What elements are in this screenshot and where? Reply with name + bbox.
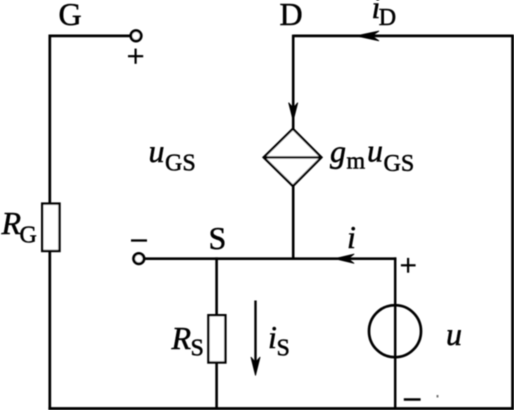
speck artifact [437,395,439,398]
voltage source u (circle) [369,305,421,357]
wire RS bottom stem [215,363,218,410]
svg-text:D: D [280,0,303,32]
svg-text:D: D [379,5,396,31]
svg-text:u: u [149,133,165,169]
terminal G (open circle) [131,31,141,41]
svg-text:R: R [1,205,22,241]
polarity - of uGS [131,239,147,241]
svg-text:u: u [446,316,462,352]
wire left vertical upper [48,35,51,204]
svg-text:S: S [191,336,204,362]
svg-text:i: i [347,219,356,255]
wire RS top stem [215,257,218,316]
terminal S (open circle) [134,253,144,263]
svg-text:G: G [59,0,82,32]
wire from D down to dependent source [292,35,295,130]
svg-text:m: m [347,149,366,175]
svg-text:GS: GS [384,151,415,177]
wire S horizontal [145,257,397,260]
wire top right horizontal [293,35,513,38]
label uGS (between G and S) [149,133,196,177]
svg-text:g: g [330,133,346,169]
wire left vertical lower [48,251,51,409]
svg-text:S: S [209,220,227,256]
wire right vertical [511,35,514,409]
wire G horizontal [49,35,131,38]
svg-text:S: S [277,336,290,362]
resistor RG [42,204,59,251]
resistor RS [208,315,225,362]
current arrow i [335,254,354,263]
wire bottom horizontal [48,407,514,410]
current arrow iS [251,301,260,376]
polarity + of uGS [128,49,143,64]
polarity + of u [401,258,416,273]
wire from dependent source down to S wire [292,185,295,260]
svg-text:R: R [171,320,192,356]
svg-text:GS: GS [165,151,196,177]
label gm uGS [330,133,414,178]
current arrow into dependent source [289,103,298,121]
wire u source vertical [394,257,397,409]
polarity - of u [404,398,421,400]
dependent current source U1 (diamond) [264,129,322,186]
svg-text:G: G [20,223,37,249]
current arrow iD [356,31,379,41]
svg-text:u: u [367,133,383,169]
